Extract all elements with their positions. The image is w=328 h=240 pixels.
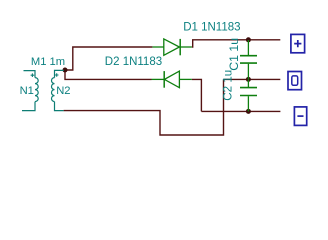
diode D2 [152,71,192,88]
terminal + box [291,34,305,52]
transformer M1 secondary winding N2 [52,70,64,110]
svg-text:C2 1u: C2 1u [221,70,234,101]
polarity plus mark of N1 [31,73,35,77]
svg-text:N1: N1 [20,85,34,97]
svg-text:N2: N2 [56,85,70,97]
capacitor C1 [240,40,257,79]
wire from N2 top junction down to D2 cathode [65,70,152,79]
svg-text:D2 1N1183: D2 1N1183 [105,56,162,68]
node junction dot on minus rail [246,109,251,114]
terminal 0 glyph [292,76,298,85]
wire from D1 cathode up to plus rail [192,40,280,47]
wire from D2 anode down to minus rail [192,79,202,111]
node junction dot on plus rail [246,37,251,42]
capacitor C2 [240,80,257,112]
wire from N2 bottom stepping down and rising to zero rail [64,79,224,135]
diode D1 [152,39,191,55]
polarity plus mark of N2 [55,73,59,77]
svg-text:D1 1N1183: D1 1N1183 [183,21,240,33]
node junction dot on zero rail [246,77,251,82]
terminal 0 box [288,72,302,90]
node junction dot at transformer top [63,68,68,73]
wire from N2 top junction up and right to D1 anode [65,47,152,70]
minus rail wire [201,110,280,112]
transformer M1 primary winding N1 [22,71,38,111]
zero rail wire [224,78,281,80]
svg-text:C1 1u: C1 1u [227,38,241,71]
terminal - box [294,107,306,126]
svg-text:M1 1m: M1 1m [31,56,65,68]
